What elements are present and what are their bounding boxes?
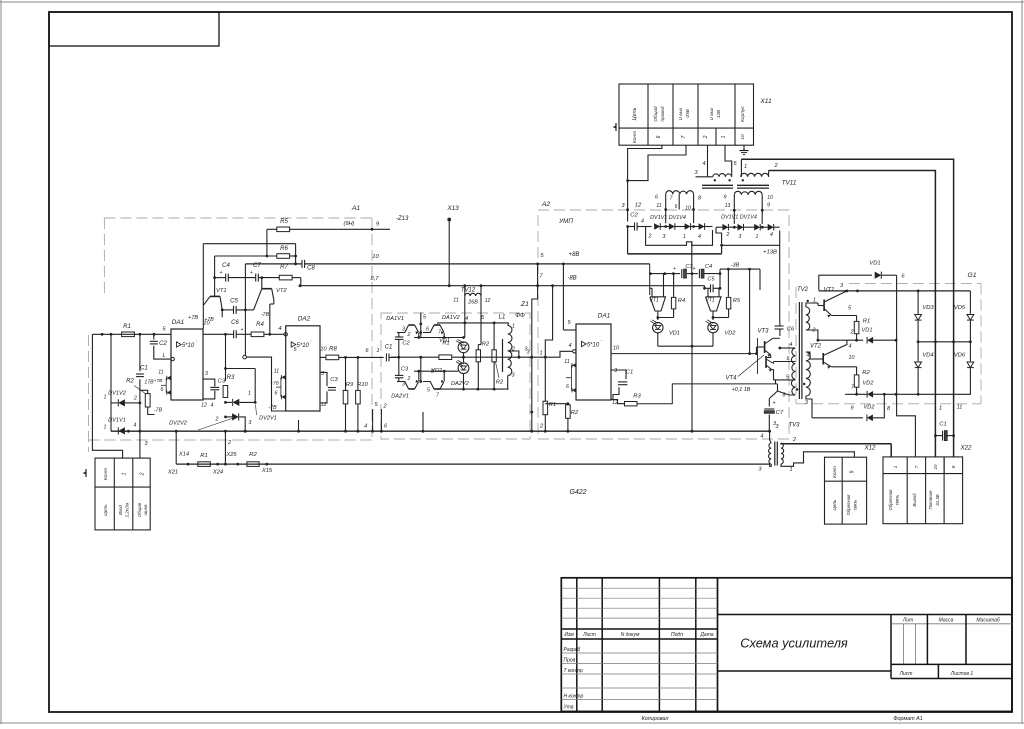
svg-text:DA1V2: DA1V2: [442, 315, 461, 321]
svg-text:R10: R10: [357, 382, 368, 388]
svg-text:C2: C2: [159, 341, 167, 347]
transistor VT2 funnel right: [706, 297, 722, 311]
svg-text:3: 3: [621, 203, 625, 209]
svg-text:7: 7: [539, 274, 543, 280]
connector X11 table: [619, 84, 754, 145]
svg-text:DV1V1 DV1V4: DV1V1 DV1V4: [721, 215, 757, 221]
svg-text:9: 9: [951, 465, 957, 468]
wire R8 right: [339, 356, 384, 358]
wire Z1-A2 links: [531, 412, 533, 432]
svg-text:10: 10: [849, 355, 855, 361]
transformer TV3: [769, 443, 772, 464]
capacitor C1 of Z1: [385, 353, 387, 361]
VT1 emitter: [824, 309, 831, 316]
svg-text:10: 10: [203, 321, 210, 327]
svg-text:связь: связь: [895, 495, 900, 506]
op-amp DA2 of A1: [286, 326, 320, 411]
wire r5 drop: [727, 269, 729, 297]
TV11 primary winding 1: [713, 174, 732, 177]
VT2 emitter: [823, 362, 831, 367]
svg-text:2: 2: [703, 135, 709, 139]
svg-text:1: 1: [683, 234, 686, 240]
svg-text:1: 1: [744, 164, 747, 170]
svg-text:R8: R8: [329, 347, 337, 353]
svg-text:+7В: +7В: [270, 381, 279, 387]
TV11 secondary winding A: [666, 191, 694, 194]
svg-text:5: 5: [567, 320, 571, 326]
svg-text:ʹ: ʹ: [196, 339, 197, 345]
svg-text:N докум: N докум: [621, 632, 640, 638]
svg-text:R2: R2: [571, 410, 579, 416]
svg-text:1: 1: [512, 324, 515, 330]
resistor R5: [277, 227, 290, 232]
wire long feed 1: [741, 159, 953, 457]
svg-text:X21: X21: [167, 470, 178, 476]
svg-text:1: 1: [539, 351, 542, 357]
LED VD1 of A2: [653, 322, 663, 332]
svg-text:DA2V1: DA2V1: [391, 394, 409, 400]
svg-text:5*10: 5*10: [587, 342, 600, 348]
resistor R2 test row: [247, 462, 259, 467]
svg-text:R1: R1: [549, 402, 556, 408]
ground symbol Корпус: [743, 145, 745, 150]
svg-text:VT1: VT1: [649, 298, 659, 304]
resistor R1 of A2: [543, 401, 548, 415]
svg-text:L1: L1: [499, 315, 506, 321]
svg-text:+: +: [772, 401, 775, 407]
svg-text:C7: C7: [776, 410, 784, 416]
svg-text:DA1: DA1: [172, 319, 185, 326]
wire L1 tap: [508, 351, 519, 357]
svg-text:ТV11: ТV11: [782, 180, 797, 187]
junction: [224, 401, 227, 404]
pin 4 circle DA2: [284, 333, 287, 336]
svg-text:11: 11: [564, 359, 569, 365]
node X13: [447, 218, 451, 222]
svg-text:12В: 12В: [716, 110, 721, 118]
block G1 dashed outline: [849, 282, 981, 284]
svg-text:DA2: DA2: [298, 316, 311, 323]
svg-text:Конт: Конт: [632, 131, 638, 143]
wire DV box to bus: [422, 412, 424, 432]
svg-text:R2: R2: [496, 380, 504, 386]
resistor R2 vertical of A1: [145, 394, 150, 407]
svg-text:ТV3: ТV3: [788, 423, 800, 429]
svg-text:12: 12: [201, 403, 207, 409]
svg-text:1: 1: [248, 391, 251, 397]
svg-text:R2: R2: [249, 452, 257, 458]
svg-text:DA1: DA1: [598, 313, 611, 320]
wire net6 down: [897, 275, 916, 457]
title block left columns: [576, 578, 578, 712]
svg-text:3: 3: [144, 441, 148, 447]
capacitor C5: [233, 306, 235, 314]
svg-text:5: 5: [540, 253, 544, 259]
svg-text:4: 4: [211, 403, 214, 409]
svg-text:8: 8: [431, 369, 434, 375]
svg-text:+8В: +8В: [569, 252, 580, 258]
svg-text:DA1V1: DA1V1: [386, 316, 404, 322]
capacitor C2 of A2: [634, 223, 636, 231]
svg-text:Дата: Дата: [699, 632, 713, 638]
title block name cell: [718, 614, 1013, 616]
svg-text:26В: 26В: [467, 300, 478, 306]
svg-text:12: 12: [485, 298, 491, 304]
svg-text:2: 2: [511, 347, 515, 353]
svg-text:-7В: -7В: [261, 312, 270, 318]
title block outline: [561, 578, 1012, 712]
diode VD6: [969, 321, 971, 362]
svg-text:3: 3: [694, 170, 698, 176]
svg-text:9: 9: [376, 222, 380, 228]
wire DA2 out: [320, 356, 326, 358]
op-amp DA1 of A1: [171, 329, 203, 400]
svg-text:9: 9: [850, 470, 856, 473]
svg-text:-7В: -7В: [154, 408, 163, 414]
wire VT3 base: [756, 347, 758, 354]
svg-text:Обратная: Обратная: [846, 494, 851, 515]
Z1 lower pins wires: [372, 409, 374, 432]
pin circle DA1: [171, 357, 174, 360]
diode VD2 low of G1: [812, 417, 863, 419]
resistor R8: [326, 355, 339, 360]
svg-text:G422: G422: [569, 489, 586, 496]
svg-text:1: 1: [104, 395, 107, 401]
svg-text:3: 3: [402, 327, 405, 333]
capacitor C4: [225, 274, 227, 282]
svg-text:3: 3: [205, 371, 208, 377]
wire +13V down right: [779, 245, 781, 322]
wire DA1 out: [611, 353, 757, 355]
svg-text:Т контр: Т контр: [564, 668, 583, 674]
svg-text:C3: C3: [218, 379, 226, 385]
svg-text:4: 4: [465, 316, 468, 322]
svg-text:+: +: [693, 266, 696, 272]
svg-text:X22: X22: [959, 445, 972, 452]
wire net 9 (R5 feedback): [267, 228, 277, 230]
resistor R4 of A1: [251, 332, 264, 337]
wire long feed 2: [769, 171, 936, 457]
wire input cell2: [139, 431, 141, 458]
pin 5 wire: [562, 264, 564, 330]
wire VT1 base drop: [214, 256, 216, 296]
svg-text:X24: X24: [212, 470, 223, 476]
wire VT2 A1 bus: [298, 420, 300, 432]
svg-text:+7В: +7В: [154, 378, 163, 384]
svg-text:5: 5: [374, 402, 378, 408]
svg-text:3: 3: [512, 373, 515, 379]
svg-text:6: 6: [275, 391, 278, 397]
wire x225 down: [225, 334, 227, 381]
svg-text:R2: R2: [482, 342, 490, 348]
svg-text:Листов 1: Листов 1: [950, 671, 974, 677]
wire top G1 rail: [819, 290, 971, 292]
svg-text:A1: A1: [351, 205, 361, 212]
capacitor C3 of A2: [681, 269, 683, 278]
svg-text:C1: C1: [626, 370, 633, 376]
svg-text:4: 4: [641, 219, 644, 225]
resistor R7: [279, 275, 292, 280]
svg-text:2: 2: [850, 330, 854, 336]
svg-text:5*10: 5*10: [182, 343, 195, 349]
TV11 primary winding 2: [741, 173, 769, 176]
resistor R4 of A2: [671, 297, 675, 309]
svg-text:10: 10: [613, 346, 620, 352]
svg-text:3: 3: [402, 382, 405, 388]
svg-text:VТ2: VТ2: [276, 288, 287, 294]
svg-text:Цепь: Цепь: [632, 107, 638, 120]
diode DV2V2: [232, 413, 239, 420]
main signal wire into DA1: [92, 333, 171, 335]
svg-text:11: 11: [274, 369, 279, 375]
svg-text:3: 3: [805, 400, 808, 406]
svg-text:X15: X15: [261, 468, 273, 474]
resistor R5 of A2: [726, 297, 730, 309]
capacitor C3 of DA2: [320, 372, 327, 384]
svg-text:3: 3: [614, 368, 618, 374]
svg-text:Конт: Конт: [832, 466, 837, 478]
diode VD2 of G1: [845, 393, 867, 395]
svg-text:31,5В: 31,5В: [935, 494, 940, 506]
capacitor C1 of X22: [942, 431, 944, 441]
svg-text:VD2: VD2: [863, 381, 875, 387]
svg-text:Копировал: Копировал: [642, 716, 669, 722]
svg-text:Утв: Утв: [564, 705, 574, 711]
svg-text:X25: X25: [225, 452, 237, 458]
wire center drop: [691, 274, 693, 347]
svg-text:шина: шина: [143, 504, 148, 516]
transistor VT1 of G1: [823, 300, 825, 312]
capacitor C7: [255, 274, 257, 282]
wire R7 to 8,7 wire: [300, 278, 302, 286]
diode DV2V1: [233, 399, 240, 406]
svg-text:2,2кОм: 2,2кОм: [125, 503, 130, 519]
svg-text:8: 8: [698, 196, 701, 202]
svg-text:C1: C1: [939, 422, 946, 428]
svg-text:6: 6: [675, 204, 678, 210]
diode group DV1V1-DV1V4 row 1: [654, 223, 660, 230]
svg-text:6: 6: [384, 424, 388, 430]
svg-text:Лист: Лист: [582, 632, 596, 638]
svg-text:Общая: Общая: [137, 502, 142, 517]
VT1 collector: [824, 291, 847, 302]
svg-text:5: 5: [427, 388, 430, 394]
svg-text:2: 2: [215, 417, 219, 423]
svg-text:U вых: U вых: [678, 107, 683, 120]
svg-text:4: 4: [698, 234, 701, 240]
wire R2 top: [140, 390, 148, 393]
pin 4 circle: [573, 350, 576, 353]
svg-text:C4: C4: [222, 263, 230, 269]
svg-text:2: 2: [227, 440, 231, 446]
wire TV3 sec top: [781, 442, 891, 445]
svg-text:Масса: Масса: [939, 618, 954, 624]
svg-text:DA2V2: DA2V2: [451, 381, 470, 387]
TV3 pins: [769, 432, 771, 440]
svg-text:Масштаб: Масштаб: [976, 618, 1000, 624]
resistor R3 of A2: [625, 402, 638, 406]
diode VD1 of G1 top: [875, 272, 882, 279]
svg-text:1: 1: [122, 472, 128, 475]
diode group 2 box: [716, 227, 780, 245]
wire bridge mid rail: [918, 341, 970, 343]
svg-text:7: 7: [681, 135, 687, 138]
wire +8V drop: [649, 264, 651, 295]
svg-text:4: 4: [364, 424, 367, 430]
svg-text:VT1: VT1: [705, 298, 715, 304]
resistor R2 of Z1: [478, 344, 481, 346]
wire funnel tops: [651, 288, 653, 297]
svg-text:6: 6: [566, 384, 569, 390]
capacitor C8: [301, 260, 303, 268]
svg-text:9: 9: [767, 203, 770, 209]
svg-text:2: 2: [726, 232, 730, 238]
svg-text:ʹ: ʹ: [601, 338, 602, 344]
svg-text:DV2V2: DV2V2: [169, 421, 188, 427]
svg-text:6: 6: [365, 348, 369, 354]
svg-text:1: 1: [939, 406, 942, 412]
svg-text:R7: R7: [280, 265, 288, 271]
svg-text:10: 10: [933, 464, 938, 469]
wire TV12 pin4 down: [464, 311, 466, 323]
svg-text:10: 10: [740, 134, 745, 140]
svg-text:8,7: 8,7: [370, 276, 379, 282]
svg-text:10: 10: [767, 195, 773, 201]
transistor VT1 funnel left: [650, 297, 666, 311]
resistor R2b of Z1: [493, 323, 495, 350]
wire bridge bottom rail: [884, 393, 971, 395]
diode DV1V1: [118, 427, 125, 434]
arrow marker left of X11: [615, 123, 617, 131]
svg-text:C6: C6: [787, 327, 795, 333]
title block header row: [561, 628, 717, 630]
svg-text:R3: R3: [227, 375, 235, 381]
svg-text:3: 3: [739, 234, 742, 240]
svg-text:5: 5: [162, 327, 166, 333]
svg-text:R2: R2: [862, 370, 870, 376]
capacitor C2 of Z1: [395, 336, 404, 338]
svg-text:1: 1: [376, 348, 379, 354]
wire X13: [448, 220, 450, 286]
svg-text:4: 4: [770, 232, 773, 238]
svg-text:R1: R1: [442, 341, 449, 347]
svg-text:3: 3: [759, 467, 762, 473]
diode group DV1V1-DV1V4 row 2: [722, 224, 728, 231]
capacitor C3 of Z1: [395, 374, 404, 376]
svg-text:5: 5: [786, 375, 789, 381]
wire VD2 top: [414, 370, 458, 372]
svg-text:Z1: Z1: [520, 301, 529, 308]
capacitor C6 of A1: [233, 330, 235, 338]
svg-text:C8: C8: [307, 266, 315, 272]
title block right section: [890, 615, 892, 679]
emitter wire to VD1: [414, 337, 464, 339]
svg-text:4: 4: [761, 434, 764, 440]
wire TV3 sec bottom: [781, 452, 854, 467]
svg-text:3: 3: [663, 234, 666, 240]
svg-text:-8В: -8В: [567, 276, 576, 282]
sheet paper edge: [0, 1, 1024, 3]
wire -3V row: [720, 268, 760, 270]
title block revision rows thin: [561, 587, 717, 589]
capacitor C6 of A2: [775, 325, 784, 327]
svg-text:G1: G1: [967, 272, 976, 279]
wire X11 pin1 down: [725, 145, 732, 177]
transistor VT2 of G1: [822, 353, 824, 365]
wire Z1 out to A2: [519, 351, 573, 357]
svg-text:1: 1: [721, 135, 727, 138]
svg-text:3: 3: [249, 420, 252, 426]
wire C2 to L pin: [154, 346, 171, 359]
wire C5 row: [222, 309, 233, 311]
svg-text:+: +: [673, 266, 676, 272]
svg-text:4: 4: [807, 353, 810, 359]
svg-text:2: 2: [792, 437, 796, 443]
Z1 top rail: [437, 322, 509, 324]
capacitor C4 of A2: [698, 269, 700, 278]
svg-text:VD1: VD1: [869, 261, 880, 267]
resistor R1 of Z1: [439, 355, 452, 360]
main ground bus wire: [111, 430, 770, 432]
TV2 right winding upper: [806, 307, 810, 330]
svg-text:C3: C3: [330, 377, 338, 383]
capacitor C5 of A2: [710, 284, 712, 292]
svg-text:U вых: U вых: [709, 107, 714, 120]
svg-text:6: 6: [655, 195, 658, 201]
svg-text:Общий: Общий: [652, 106, 658, 122]
transistor VT2 funnel: [262, 288, 272, 290]
svg-text:17В: 17В: [144, 380, 154, 386]
resistor R1 of G1: [854, 321, 859, 333]
wire X11 pin6 down: [628, 145, 662, 221]
wire bus to X21: [175, 432, 177, 464]
wire secondary B taps: [733, 210, 735, 224]
svg-text:VD4: VD4: [922, 353, 933, 359]
feedback loop wire: [203, 243, 295, 245]
junction: [139, 402, 142, 405]
svg-text:5: 5: [733, 161, 737, 167]
svg-text:DV1V1 DV1V4: DV1V1 DV1V4: [650, 215, 686, 221]
capacitor C7 electrolytic: [768, 399, 770, 407]
svg-text:+: +: [241, 327, 244, 333]
title block signature rows: [561, 652, 717, 654]
center vertical lower: [420, 357, 422, 381]
svg-text:Лист: Лист: [899, 671, 913, 677]
svg-text:10: 10: [320, 347, 327, 353]
wire input cell1: [92, 334, 122, 458]
diode DV1V2: [118, 399, 125, 406]
svg-text:R6: R6: [280, 246, 288, 252]
svg-text:4: 4: [790, 342, 793, 348]
svg-text:1: 1: [104, 425, 107, 431]
svg-text:+13В: +13В: [763, 250, 777, 256]
svg-text:ʹ: ʹ: [310, 339, 311, 345]
wire VT2 base drop: [261, 278, 263, 289]
wire R2 bottom: [148, 407, 155, 415]
box around DV2V1: [226, 368, 256, 370]
svg-text:VD5: VD5: [954, 305, 966, 311]
svg-text:4: 4: [278, 326, 281, 332]
svg-text:R5: R5: [733, 298, 741, 304]
wire left node down: [110, 334, 112, 431]
wire C1 right: [389, 356, 398, 358]
inductor L1: [502, 339, 504, 372]
arrow marker input: [85, 469, 87, 477]
svg-text:Цепь: Цепь: [103, 504, 109, 516]
svg-text:3: 3: [840, 283, 844, 289]
wire C5 row: [704, 286, 706, 289]
wire DV1V2: [111, 402, 118, 404]
